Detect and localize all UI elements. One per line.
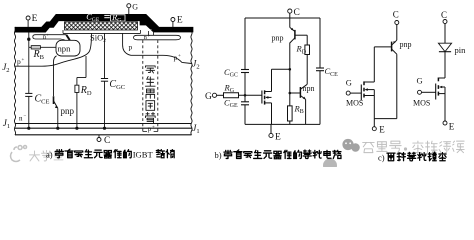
svg-text:+: + [152, 126, 155, 131]
svg-text:G: G [132, 2, 138, 11]
svg-text:G: G [346, 78, 352, 88]
svg-text:n: n [19, 115, 23, 123]
svg-text:E: E [449, 122, 455, 132]
svg-text:−: − [24, 115, 27, 120]
svg-text:G: G [417, 76, 423, 86]
svg-text:c): c) [378, 152, 385, 162]
svg-text:C: C [104, 136, 110, 146]
svg-text:pin: pin [455, 45, 467, 55]
svg-text:G: G [205, 92, 212, 102]
svg-text:C: C [393, 10, 399, 20]
svg-text:p: p [174, 53, 178, 62]
svg-text:pnp: pnp [272, 33, 284, 42]
svg-text:MOS: MOS [346, 98, 363, 107]
svg-text:npn: npn [58, 44, 72, 54]
svg-text:npn: npn [303, 84, 315, 93]
svg-text:pnp: pnp [400, 40, 412, 49]
svg-text:p: p [148, 125, 152, 133]
svg-text:p: p [17, 57, 21, 66]
svg-text:MOS: MOS [413, 98, 430, 107]
svg-text:pnp: pnp [61, 106, 75, 116]
svg-text:E: E [32, 14, 38, 24]
svg-text:E: E [379, 124, 385, 134]
svg-text:C: C [441, 10, 447, 20]
svg-text:a): a) [46, 149, 53, 159]
svg-text:b): b) [215, 150, 222, 160]
svg-text:+: + [178, 54, 181, 59]
svg-text:C: C [294, 8, 300, 18]
svg-text:E: E [177, 16, 183, 26]
svg-text:n: n [144, 34, 147, 41]
svg-text:+: + [22, 58, 25, 63]
svg-text:E: E [275, 132, 281, 142]
svg-text:p: p [129, 42, 133, 51]
svg-text:IGBT: IGBT [133, 149, 154, 159]
svg-text:+: + [47, 32, 50, 37]
